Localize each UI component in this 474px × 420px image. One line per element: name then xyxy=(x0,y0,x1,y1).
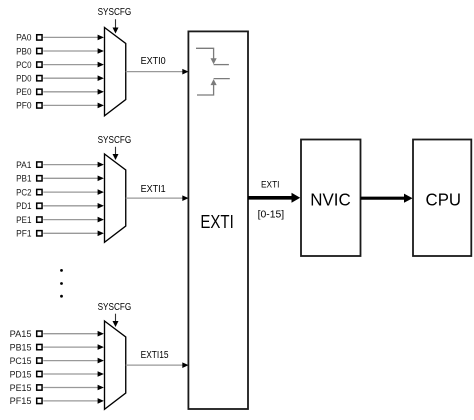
wire PF15 to mux xyxy=(43,398,104,404)
svg-text:PF1: PF1 xyxy=(16,229,31,239)
svg-text:PB1: PB1 xyxy=(16,174,31,184)
wire EXTI15 from mux to EXTI block xyxy=(126,362,189,368)
falling edge trigger icon xyxy=(196,48,229,64)
svg-text:CPU: CPU xyxy=(426,189,462,209)
wire PE1 to mux xyxy=(43,217,104,223)
svg-text:PC2: PC2 xyxy=(16,187,31,197)
wire PB1 to mux xyxy=(43,176,104,182)
svg-text:EXTI0: EXTI0 xyxy=(141,56,167,67)
svg-text:SYSCFG: SYSCFG xyxy=(98,134,132,146)
svg-text:PF15: PF15 xyxy=(10,396,32,406)
SYSCFG select wire into mux 1 xyxy=(113,147,119,160)
wire PB15 to mux xyxy=(43,344,104,350)
svg-text:[0-15]: [0-15] xyxy=(258,209,285,220)
svg-text:PA1: PA1 xyxy=(16,160,31,170)
wire PC0 to mux xyxy=(43,62,104,68)
svg-text:PA0: PA0 xyxy=(16,33,31,43)
wire PD0 to mux xyxy=(43,75,104,81)
svg-text:PC0: PC0 xyxy=(16,60,31,70)
svg-text:PE15: PE15 xyxy=(10,383,32,393)
wire PC2 to mux xyxy=(43,189,104,195)
multiplexer SYSCFG EXTI15 xyxy=(105,321,126,409)
wire PA15 to mux xyxy=(43,331,104,337)
SYSCFG select wire into mux 15 xyxy=(113,314,119,327)
SYSCFG select wire into mux 0 xyxy=(113,19,119,33)
svg-text:PF0: PF0 xyxy=(16,101,31,111)
svg-text:EXTI1: EXTI1 xyxy=(141,184,166,195)
svg-text:SYSCFG: SYSCFG xyxy=(98,301,132,313)
wire PC15 to mux xyxy=(43,358,104,364)
svg-text:PB0: PB0 xyxy=(16,46,31,56)
svg-text:SYSCFG: SYSCFG xyxy=(98,6,132,18)
wire EXTI0 from mux to EXTI block xyxy=(126,69,189,75)
wire PA1 to mux xyxy=(43,162,104,168)
wire PA0 to mux xyxy=(43,35,104,41)
svg-text:PD1: PD1 xyxy=(16,201,31,211)
wire PD1 to mux xyxy=(43,203,104,209)
NVIC block U2 xyxy=(301,140,361,257)
ellipsis dots (repeated groups) xyxy=(60,269,63,272)
wire PB0 to mux xyxy=(43,48,104,54)
svg-text:PB15: PB15 xyxy=(10,342,32,352)
svg-text:PD15: PD15 xyxy=(10,369,32,379)
multiplexer SYSCFG EXTI1 xyxy=(105,154,126,242)
svg-text:EXTI: EXTI xyxy=(261,179,280,189)
svg-text:PE1: PE1 xyxy=(16,215,31,225)
wire NVIC to CPU xyxy=(361,194,413,203)
multiplexer SYSCFG EXTI0 xyxy=(105,28,126,116)
CPU block U3 xyxy=(413,140,471,257)
wire PE0 to mux xyxy=(43,89,104,95)
wire PF0 to mux xyxy=(43,103,104,109)
rising edge trigger icon xyxy=(197,79,230,95)
svg-text:PA15: PA15 xyxy=(10,329,32,339)
wire EXTI1 from mux to EXTI block xyxy=(126,195,189,201)
bus EXTI[0-15] from EXTI to NVIC xyxy=(248,193,300,203)
svg-text:EXTI15: EXTI15 xyxy=(141,350,169,361)
svg-text:PD0: PD0 xyxy=(16,74,31,84)
svg-text:PC15: PC15 xyxy=(10,356,32,366)
svg-text:PE0: PE0 xyxy=(16,87,31,97)
EXTI peripheral block U1 xyxy=(188,31,248,409)
wire PF1 to mux xyxy=(43,231,104,237)
svg-text:NVIC: NVIC xyxy=(310,189,351,209)
wire PE15 to mux xyxy=(43,385,104,391)
wire PD15 to mux xyxy=(43,371,104,377)
svg-text:EXTI: EXTI xyxy=(200,211,233,232)
